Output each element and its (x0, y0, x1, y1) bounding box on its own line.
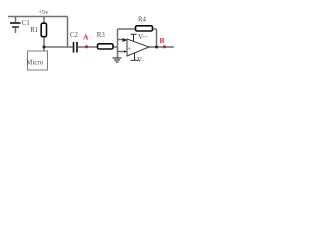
svg-text:--: -- (142, 58, 145, 63)
svg-text:C1: C1 (22, 20, 30, 27)
svg-text:+5v: +5v (38, 9, 49, 16)
svg-text:R3: R3 (97, 32, 106, 39)
svg-text:Micro: Micro (26, 60, 43, 67)
svg-text:++: ++ (143, 34, 149, 39)
svg-text:A: A (83, 33, 89, 42)
svg-text:R1: R1 (30, 27, 38, 34)
svg-text:R4: R4 (138, 16, 147, 23)
svg-text:B: B (160, 36, 165, 45)
svg-text:C2: C2 (70, 32, 79, 39)
